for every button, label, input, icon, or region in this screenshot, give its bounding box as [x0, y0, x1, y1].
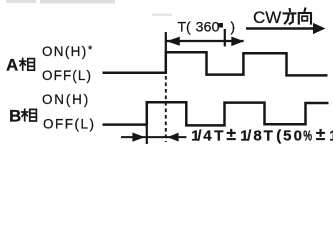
- svg-text:(: (: [276, 128, 281, 144]
- svg-text:4: 4: [203, 128, 212, 144]
- svg-text:8: 8: [253, 128, 261, 144]
- svg-text:0: 0: [294, 128, 302, 144]
- 1/4T right-pointing arrowhead: [132, 133, 145, 142]
- svg-text:): ): [230, 19, 235, 35]
- scan smudge above T text: [152, 14, 172, 17]
- T(360) dimension line: [167, 40, 244, 42]
- svg-text:360: 360: [196, 19, 220, 35]
- svg-text:OFF(L): OFF(L): [43, 117, 96, 132]
- tick at B rise2 crossing T dimension: [224, 29, 226, 47]
- waveform B: [103, 102, 329, 125]
- svg-text:±: ±: [316, 124, 326, 144]
- dashed extension of A rise1 down through B: [165, 76, 167, 142]
- 1/4T dimension line: [121, 136, 186, 138]
- svg-text:OFF(L): OFF(L): [42, 68, 92, 83]
- solid extension of B rise1 down to bottom dimension: [146, 126, 148, 145]
- 1/4T left-pointing arrowhead: [167, 133, 178, 142]
- svg-text:1: 1: [329, 128, 333, 144]
- CW direction arrow: [246, 23, 326, 34]
- svg-text:*: *: [88, 44, 93, 56]
- svg-text:±: ±: [226, 124, 236, 144]
- kanji 方: [283, 8, 297, 24]
- kanji 向: [299, 8, 311, 25]
- svg-text:CW: CW: [253, 8, 281, 27]
- svg-text:%: %: [303, 128, 312, 144]
- text 1/4T±1/8T(50%±12.5%): [191, 124, 333, 145]
- svg-text:B: B: [9, 106, 21, 125]
- svg-text:T(: T(: [178, 19, 192, 35]
- svg-text:T: T: [214, 128, 223, 144]
- T dimension right arrowhead: [231, 37, 244, 47]
- T dimension left arrowhead: [166, 37, 179, 46]
- scan smudge top-left: [6, 0, 115, 4]
- svg-text:A: A: [6, 56, 18, 75]
- T dimension left extension tick at A rise: [165, 32, 167, 52]
- label A相: kanji 相: [19, 58, 34, 71]
- svg-text:ON(H): ON(H): [42, 44, 88, 59]
- svg-text:5: 5: [283, 128, 291, 144]
- svg-text:ON(H): ON(H): [42, 92, 90, 107]
- svg-text:T: T: [264, 128, 273, 144]
- degree mark: [218, 23, 223, 28]
- waveform A: [103, 52, 328, 75]
- label B相: kanji 相: [21, 108, 36, 121]
